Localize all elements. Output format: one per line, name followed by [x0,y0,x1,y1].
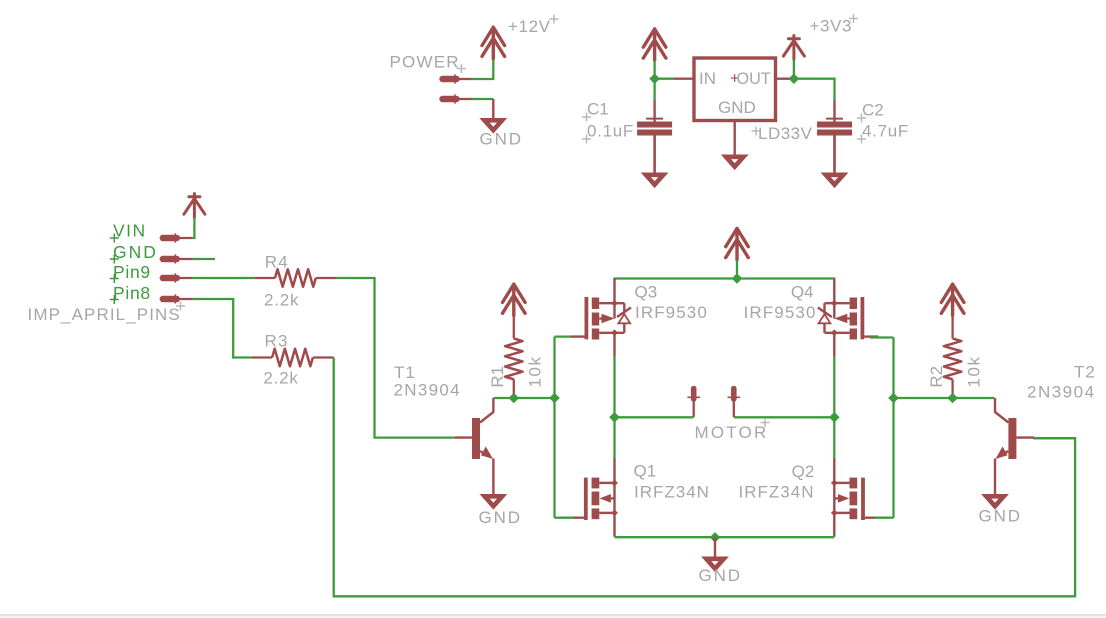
C2 lower stem [833,136,835,173]
svg-text:POWER: POWER [390,52,460,71]
C2 name cross [857,114,866,123]
supply +3V3 arrow [783,36,804,60]
resistor R2 [944,316,962,399]
svg-text:IRFZ34N: IRFZ34N [634,483,710,502]
GND label cross [110,255,119,264]
junction motor right [829,412,840,423]
svg-text:Q4: Q4 [791,283,814,302]
regulator GND pin stem [734,121,736,156]
header pin VIN [163,233,193,242]
svg-text:LD33V: LD33V [758,124,813,143]
header pin Pin9 [163,273,193,282]
wire R4 to T1 base [337,278,455,438]
ground symbol bottom rail [706,559,724,569]
wire OUT to C2 [791,79,835,100]
+3V3 origin cross [849,14,858,23]
svg-text:Q3: Q3 [635,283,658,302]
svg-text:T1: T1 [394,363,416,382]
ground pin stem at POWER [492,99,494,118]
svg-text:R4: R4 [265,252,289,271]
supply +12V arrow above C1 [643,29,666,60]
wire arrow to C1 [653,60,655,100]
svg-text:GND: GND [979,507,1022,526]
wire right gate column [892,338,894,518]
ground symbol below C2 [826,175,844,185]
wire Q4 gate [870,336,894,338]
wire top rail [615,279,835,282]
supply arrow at VIN [184,194,205,218]
motor pin 1 [687,389,700,418]
wire to Q3 gate [555,335,572,337]
header pin GND [163,254,193,263]
ground symbol below C1 [646,175,664,185]
POWER origin cross [457,64,466,73]
wire +3V3 to OUT junction [793,60,795,79]
svg-text:R3: R3 [265,332,289,351]
svg-text:IRFZ34N: IRFZ34N [739,483,815,502]
svg-text:Q1: Q1 [634,462,657,481]
ground symbol at T1 [485,496,503,506]
C1 lower stem [653,136,655,173]
regulator OUT pin [776,77,792,79]
svg-text:IRF9530: IRF9530 [635,303,708,322]
junction right gate column [888,393,899,404]
wire bottom rail [615,536,835,538]
supply arrow top rail [726,228,749,259]
resistor R4 [254,269,336,287]
wire Q4 source to Q2 drain [833,357,835,459]
motor pin 2 [728,389,741,418]
svg-text:Q2: Q2 [792,462,815,481]
wire right column to T2 collector [894,397,995,399]
svg-text:+3V3: +3V3 [810,17,853,36]
mosfet Q4 IRF9530 [818,279,879,357]
junction bottom rail [710,532,721,543]
svg-text:GND: GND [718,98,756,117]
wire pin1 to +12V [471,59,493,79]
ground symbol at T2 [986,496,1004,506]
wire left gate column [553,337,555,518]
header pin Pin8 [163,294,193,303]
regulator IC body [694,58,776,121]
resistor R1 [505,316,523,399]
capacitor C1 [637,100,672,173]
capacitor C2 [817,100,852,173]
svg-text:2N3904: 2N3904 [394,381,461,400]
wire Pin9 to R4 [193,277,254,279]
svg-text:2N3904: 2N3904 [1027,383,1096,402]
svg-text:GND: GND [480,130,523,149]
POWER pin 1 [443,74,473,83]
ground stem bottom rail [714,537,716,557]
regulator IN pin [674,77,694,79]
mosfet Q3 IRF9530 [571,279,632,357]
wire arrow to rail [736,260,738,279]
wire motor left [615,416,694,418]
svg-text:2.2k: 2.2k [264,290,299,309]
ground symbol below regulator [726,157,744,167]
wire Pin8 to R3 [193,299,252,358]
Pin9 label cross [110,274,119,283]
junction R2 bottom [947,393,958,404]
MOTOR origin cross [761,418,770,427]
4.7uF cross [857,135,866,144]
supply arrow above R2 [941,284,964,315]
resistor R3 [251,349,333,367]
wire Q3 source to Q1 drain [613,357,615,459]
wire junction to IN pin [655,78,674,80]
wire motor right [734,416,835,418]
supply +12V arrow [482,27,505,58]
wire to Q1 gate [555,517,575,519]
wire T2 base [1034,437,1075,439]
junction at OUT [789,73,800,84]
svg-text:10k: 10k [526,355,545,387]
transistor T2 [995,398,1034,494]
svg-text:GND: GND [113,242,158,262]
svg-text:4.7uF: 4.7uF [862,121,909,140]
svg-text:C2: C2 [862,101,884,120]
POWER pin 2 [443,94,473,103]
svg-text:IRF9530: IRF9530 [744,303,817,322]
svg-text:10k: 10k [964,355,983,387]
junction top rail [732,273,743,284]
svg-text:T2: T2 [1074,363,1096,382]
ground symbol at POWER [485,120,503,130]
svg-text:GND: GND [479,508,522,527]
window bottom border [0,614,1106,616]
svg-text:MOTOR: MOTOR [695,423,769,442]
junction motor left [609,412,620,423]
IMP_APRIL_PINS cross [176,302,185,311]
svg-text:0.1uF: 0.1uF [587,121,634,140]
wire pin2 to GND [471,98,493,100]
LD33V origin cross [752,127,761,136]
0.1uF cross [582,135,591,144]
svg-text:IN: IN [699,69,716,88]
junction left gate column [549,393,560,404]
Pin8 label cross [110,295,119,304]
VIN label cross [110,234,119,243]
junction R1 bottom [509,393,520,404]
wire R3 to bottom run to T2 base [334,358,1075,597]
mosfet Q2 IRFZ34N [831,458,875,537]
transistor T1 [454,398,493,494]
svg-text:OUT: OUT [737,70,771,88]
wire VIN pin to arrow [193,218,195,238]
supply arrow above R1 [503,284,526,315]
svg-text:R2: R2 [927,366,946,388]
svg-text:C1: C1 [587,99,609,118]
+12V origin cross [550,15,559,24]
mosfet Q1 IRFZ34N [574,458,618,537]
svg-text:+12V: +12V [508,17,551,36]
C1 name cross [582,113,591,122]
wire GND stub [193,258,215,260]
wire T1 collector rail [493,397,554,399]
junction at C1/IN [649,73,660,84]
svg-text:R1: R1 [488,366,507,388]
svg-text:IMP_APRIL_PINS: IMP_APRIL_PINS [28,305,181,324]
svg-text:2.2k: 2.2k [263,369,298,388]
wire Q2 gate [874,517,894,519]
svg-text:GND: GND [699,566,742,585]
